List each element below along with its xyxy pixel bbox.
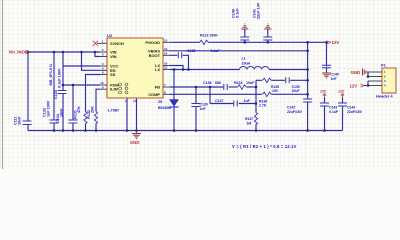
capacitor C132 xyxy=(43,100,59,123)
wire FB line xyxy=(170,86,223,88)
power port 12V top right xyxy=(327,40,339,45)
svg-text:12: 12 xyxy=(164,39,168,43)
svg-text:VIN: VIN xyxy=(110,54,117,59)
wire R137 bottom lead xyxy=(255,124,257,130)
svg-text:10uH: 10uH xyxy=(242,62,251,66)
ground symbol GND below rail xyxy=(130,131,141,146)
wire snubber R135 to C139 xyxy=(271,79,285,81)
svg-text:BOOT: BOOT xyxy=(149,53,161,58)
power port 12V at P1 xyxy=(350,83,369,88)
svg-text:10nF: 10nF xyxy=(60,108,64,117)
wire R134 to node xyxy=(246,86,256,88)
wire VBIAS line xyxy=(170,50,308,52)
svg-text:C133: C133 xyxy=(54,90,58,99)
capacitor C136 xyxy=(192,103,208,112)
svg-text:680: 680 xyxy=(215,81,221,85)
svg-text:P1: P1 xyxy=(381,63,387,68)
svg-text:C145: C145 xyxy=(331,73,339,77)
wire C111 column lower xyxy=(27,125,29,131)
svg-text:Vin_INO: Vin_INO xyxy=(9,50,26,55)
svg-text:C142: C142 xyxy=(287,106,295,110)
wire R136 to riser xyxy=(271,93,307,95)
svg-text:10nF: 10nF xyxy=(18,116,22,125)
no-connect cross on SYNCH xyxy=(93,41,98,46)
svg-text:12V: 12V xyxy=(350,83,358,88)
svg-text:GND: GND xyxy=(351,70,361,75)
svg-text:U2: U2 xyxy=(107,33,113,38)
svg-text:C136: C136 xyxy=(200,103,208,107)
svg-text:22uF/16V: 22uF/16V xyxy=(347,110,363,114)
svg-text:ILIM: ILIM xyxy=(110,87,119,92)
svg-text:R134: R134 xyxy=(234,81,242,85)
capacitor C139 xyxy=(286,77,301,93)
wire C111 column upper xyxy=(27,52,29,121)
resistor R134 xyxy=(234,81,255,89)
wire C136 column lower xyxy=(195,107,197,131)
svg-text:B0340B: B0340B xyxy=(158,106,171,110)
svg-text:LX: LX xyxy=(155,67,160,72)
svg-text:1nF: 1nF xyxy=(244,99,251,103)
svg-text:13: 13 xyxy=(164,47,168,51)
wire L1 to riser xyxy=(269,69,308,71)
svg-text:C137: C137 xyxy=(215,99,223,103)
svg-text:12V: 12V xyxy=(320,90,327,94)
wire C137 branch left xyxy=(210,103,233,105)
svg-text:1M: 1M xyxy=(247,122,252,126)
svg-text:100: 100 xyxy=(272,89,278,93)
capacitor C144 xyxy=(338,103,363,114)
svg-text:2.7K: 2.7K xyxy=(259,104,267,108)
IC U2 pin names xyxy=(110,40,161,97)
wire snubber line left xyxy=(256,79,262,81)
capacitor C143 xyxy=(320,103,339,114)
resistor R135 xyxy=(263,78,280,93)
svg-text:C135: C135 xyxy=(187,49,195,53)
svg-text:20K: 20K xyxy=(91,106,95,113)
diode Z9 xyxy=(158,100,179,111)
wire 12V riser lower xyxy=(307,102,309,131)
resistor R136 xyxy=(259,92,271,107)
svg-text:R133 100K: R133 100K xyxy=(200,34,218,38)
capacitor C111 xyxy=(14,116,32,125)
wire C132 column lower xyxy=(53,123,55,131)
wire R133 to 12V corner xyxy=(208,42,326,65)
wire LX pin15 jog xyxy=(170,66,183,70)
wire R131 bottom lead xyxy=(85,123,87,130)
wire C145 branch upper xyxy=(326,65,328,66)
connector P1 xyxy=(368,63,396,99)
wire IC ground pin column A xyxy=(126,98,128,131)
wire diode column upper xyxy=(173,70,175,100)
wire diode column lower xyxy=(173,107,175,131)
wire VIN pin3 drop xyxy=(95,52,100,57)
resistor R131 xyxy=(74,106,88,124)
svg-text:1nF: 1nF xyxy=(331,77,338,81)
svg-text:C144: C144 xyxy=(347,106,355,110)
wire COMP line xyxy=(170,93,262,95)
wire PGOOD to R133 xyxy=(170,41,200,43)
wire C134 column lower xyxy=(72,123,74,131)
svg-text:1nF: 1nF xyxy=(200,107,207,111)
svg-text:10nF: 10nF xyxy=(246,81,255,85)
svg-text:GND: GND xyxy=(130,140,139,145)
wire C143 column xyxy=(324,98,326,131)
svg-text:22uF 10V: 22uF 10V xyxy=(257,2,261,19)
svg-text:17: 17 xyxy=(125,99,129,103)
capacitor C141 with ground up xyxy=(253,2,273,40)
capacitor C134 xyxy=(56,108,78,123)
svg-text:SS: SS xyxy=(110,72,116,77)
svg-text:0.1uF 100V: 0.1uF 100V xyxy=(58,68,62,88)
svg-text:L1: L1 xyxy=(242,57,246,61)
wire C135 to LX net xyxy=(183,55,189,69)
IC U2 pin stubs left xyxy=(97,43,107,89)
svg-text:Z9: Z9 xyxy=(158,100,162,104)
wire Vin rail xyxy=(28,51,100,53)
svg-text:C138: C138 xyxy=(203,81,211,85)
resistor R133 xyxy=(200,34,219,45)
IC U2 pin numbers xyxy=(100,39,167,104)
svg-text:C143: C143 xyxy=(329,106,337,110)
capacitor C133 xyxy=(54,68,67,99)
wire FSW line xyxy=(63,84,100,86)
wire C144 column xyxy=(342,98,344,131)
svg-text:COMP: COMP xyxy=(148,92,160,97)
sheet border xyxy=(2,0,4,169)
wire snubber C139 to riser xyxy=(290,79,307,81)
wire BOOT to C135 xyxy=(170,54,177,56)
wire C133 column upper xyxy=(62,52,64,91)
wire C138 to R134 xyxy=(229,86,238,88)
wire FB node drop xyxy=(209,87,211,104)
wire IC ground pin column B xyxy=(136,98,138,131)
IC U2 pin stubs right xyxy=(163,42,170,94)
wire 12V riser upper xyxy=(307,42,309,99)
wire C141 leads xyxy=(267,30,269,43)
capacitor C142 xyxy=(287,99,312,114)
capacitor C138 xyxy=(203,81,227,90)
resistor R137 xyxy=(245,113,258,126)
port Vin_INO xyxy=(9,50,29,55)
IC U2 body xyxy=(107,33,163,98)
svg-text:0.1uF: 0.1uF xyxy=(211,49,221,53)
svg-text:12V: 12V xyxy=(332,40,340,45)
svg-text:L7987: L7987 xyxy=(108,108,120,113)
power port 12V for C144 xyxy=(338,90,345,98)
inductor L1 xyxy=(240,57,270,70)
wire C136 column upper xyxy=(195,87,197,104)
wire LX line xyxy=(170,69,240,71)
svg-text:V = ( R1 / R2 + 1 ) * 0.8 = 12: V = ( R1 / R2 + 1 ) * 0.8 = 12.1V xyxy=(232,144,296,149)
svg-text:22uF/16V: 22uF/16V xyxy=(287,110,303,114)
capacitor C140 with ground up xyxy=(232,8,250,40)
wire C134 column upper xyxy=(72,85,74,120)
svg-text:11: 11 xyxy=(133,99,136,103)
wire R132 bottom lead xyxy=(95,123,97,130)
svg-text:10uF: 10uF xyxy=(292,89,301,93)
wire SS line xyxy=(86,75,101,112)
wire EN drop xyxy=(82,52,101,70)
wire C132 column upper xyxy=(53,52,55,120)
svg-text:47K: 47K xyxy=(77,106,81,113)
wire P1 gnd tie xyxy=(367,72,369,77)
svg-text:PGOOD: PGOOD xyxy=(145,40,160,45)
svg-text:12V: 12V xyxy=(338,90,345,94)
svg-text:1nF 100V: 1nF 100V xyxy=(47,100,51,117)
IC U2 ground pad glyphs xyxy=(119,83,129,94)
svg-text:15: 15 xyxy=(164,66,168,70)
svg-text:R137: R137 xyxy=(245,117,253,121)
wire C137 branch right xyxy=(239,103,256,105)
svg-text:0.1uF: 0.1uF xyxy=(329,110,339,114)
wire node vertical x256 xyxy=(255,80,257,112)
wire P1 12V tie xyxy=(367,81,369,86)
svg-text:0.1uF: 0.1uF xyxy=(236,8,240,18)
svg-text:SYNCH: SYNCH xyxy=(110,41,124,46)
resistor R132 xyxy=(87,106,98,124)
power port 12V for C143 xyxy=(320,90,327,98)
capacitor C137 xyxy=(215,99,251,107)
capacitor C135 xyxy=(178,49,220,58)
svg-text:FB: FB xyxy=(155,85,160,90)
wire C140 leads xyxy=(244,30,246,43)
svg-text:Header 4: Header 4 xyxy=(376,94,393,99)
wire ILIM line xyxy=(96,89,100,111)
svg-text:MB_4P1.0 I1: MB_4P1.0 I1 xyxy=(49,64,53,86)
wire ground rail xyxy=(28,130,343,132)
svg-text:14: 14 xyxy=(164,52,168,56)
wire VCC line xyxy=(63,65,100,67)
capacitor C145 with ground down xyxy=(322,65,339,81)
ground symbol GND at P1 xyxy=(351,69,368,76)
wire C133 column lower xyxy=(62,94,64,131)
